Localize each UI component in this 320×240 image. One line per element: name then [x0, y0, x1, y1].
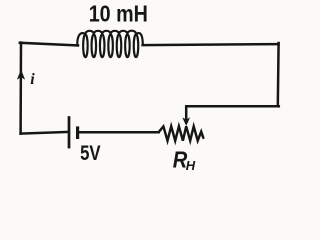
wire bottom-right [78, 131, 159, 134]
wire top-left [20, 43, 78, 46]
wire bottom-left [21, 132, 68, 134]
svg-text:H: H [186, 158, 196, 173]
svg-text:i: i [30, 71, 35, 88]
wire top-right [143, 44, 279, 45]
svg-text:5V: 5V [80, 142, 101, 165]
wire left vertical [19, 43, 22, 134]
rheostat RH zigzag [159, 126, 204, 140]
svg-text:10 mH: 10 mH [89, 1, 148, 27]
wire right vertical [277, 43, 280, 106]
inductor L1 coil [77, 31, 143, 57]
current arrow i head [17, 70, 25, 80]
battery B1 long plate [68, 116, 71, 148]
wire jog to rheostat arrow [186, 106, 279, 119]
rheostat wiper arrow head [182, 117, 190, 126]
battery B1 short plate [76, 126, 79, 139]
